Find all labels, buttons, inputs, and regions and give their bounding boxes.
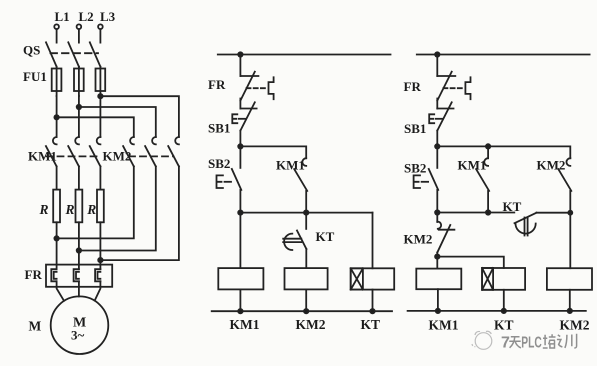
fuse FU1 element 1 (52, 67, 62, 96)
coil KM2 (middle) (285, 268, 328, 289)
wire phase1 FR to motor (57, 281, 64, 301)
svg-text:KM2: KM2 (404, 232, 433, 247)
wire phase2 fuse to KM1 contact (78, 96, 80, 137)
wire node A to KM1 branch (middle) (240, 146, 306, 158)
svg-text:R: R (86, 202, 96, 217)
node C junction (right) (435, 254, 439, 258)
junction KM2 coil rail (right) (568, 309, 572, 313)
svg-text:FR: FR (404, 79, 422, 94)
fuse FU1 element 3 (96, 67, 106, 96)
thermal relay FR heater element 3 (95, 269, 100, 281)
wire KM1 coil to bottom rail (right) (437, 289, 439, 311)
KM1 contacts linkage dashed line (47, 155, 100, 157)
wire phase2 resistor to FR (78, 222, 80, 269)
pushbutton SB1 NC (right) (404, 99, 454, 147)
wire phase3 KM1 contact to resistor R3 (99, 166, 101, 189)
junction rail to FR (right) (435, 52, 439, 56)
pushbutton SB2 NO (middle) (208, 146, 241, 212)
svg-text:3~: 3~ (71, 328, 85, 343)
resistor R3 (86, 190, 104, 223)
junction phase1 KM2 return (54, 236, 58, 240)
contactor KM1 main contact pole 2 (68, 137, 79, 166)
switch QS linkage dashed line (51, 52, 99, 54)
contactor KM2 main contact pole 2 (145, 137, 156, 166)
wire phase1 resistor to FR (56, 222, 58, 269)
svg-text:KM2: KM2 (296, 317, 326, 332)
junction rail to FR (middle) (238, 52, 242, 56)
wire KM2 coil to bottom rail (middle) (305, 289, 307, 311)
coil KT with X mark (middle) (351, 268, 395, 289)
wire phase1 to KM2 pole1 top (57, 117, 134, 137)
contactor KM1 self-lock NO contact (middle) (276, 158, 307, 213)
svg-text:KM1: KM1 (458, 158, 487, 173)
resistor R2 (65, 190, 83, 223)
thermal relay FR heater element 1 (51, 269, 56, 281)
junction SB2 bottom (middle) (238, 210, 242, 214)
wire KM2 pole1 bottom return (57, 166, 134, 238)
switch QS pole 1 blade (46, 42, 57, 66)
wire L2 drop to QS (78, 29, 80, 42)
junction SB2 bottom node B (right) (435, 210, 439, 214)
wire KM2 branch to KM2 coil (right) (569, 213, 571, 269)
wire bus corner to KT coil (middle) (372, 213, 374, 269)
wire KM2 pole3 bottom return (100, 166, 178, 260)
svg-text:R: R (65, 202, 75, 217)
wire KM2 coil to bottom rail (right) (569, 290, 571, 311)
wire KM1 coil to bottom rail (middle) (239, 289, 241, 311)
thermal relay FR NC contact (right) (404, 55, 471, 101)
wire L3 drop to QS (99, 29, 101, 42)
wire bus to KM1 coil (middle) (239, 213, 241, 269)
svg-text:PLC: PLC (521, 335, 542, 352)
svg-text:SB2: SB2 (404, 161, 426, 176)
svg-text:SB1: SB1 (208, 121, 230, 136)
svg-text:KM1: KM1 (429, 318, 459, 333)
wire phase2 KM1 contact to resistor R2 (78, 166, 80, 189)
watermark logo circle (472, 331, 492, 349)
svg-text:SB2: SB2 (208, 156, 230, 171)
wire phase1 KM1 contact to resistor R1 (56, 166, 58, 189)
junction phase2 to KM2 branch (77, 105, 81, 109)
coil KM1 (right) (416, 269, 461, 290)
junction KT coil rail (right) (502, 309, 506, 313)
contactor KM1 main contact pole 3 (90, 137, 101, 166)
resistor R1 (39, 190, 61, 223)
contactor KM2 main contact pole 1 (123, 137, 134, 166)
node A junction (middle) (238, 144, 242, 148)
node A junction (right) (435, 144, 439, 148)
wire bottom rail (middle) (212, 310, 392, 312)
svg-text:KM1: KM1 (230, 317, 260, 332)
junction KM1 coil rail (right) (436, 309, 440, 313)
wire phase2 FR to motor (78, 281, 80, 296)
svg-text:L3: L3 (100, 9, 116, 24)
junction node A to KM1 branch (right) (486, 144, 490, 148)
svg-text:KT: KT (494, 318, 514, 333)
wire phase1 fuse to KM1 contact (56, 96, 58, 137)
wire phase3 FR to motor (95, 281, 101, 300)
junction phase1 to KM2 branch (54, 115, 58, 119)
coil KT with X mark (right) (482, 268, 525, 290)
pushbutton SB2 NO (right) (404, 146, 438, 212)
wire node C to KT coil (right) (437, 257, 504, 268)
wire L1 drop to QS (56, 29, 58, 42)
node L1 terminal (54, 9, 69, 29)
wire top supply rail (right) (417, 54, 590, 56)
wire node A to KM2 branch (right) (437, 146, 570, 158)
junction KM1 coil rail (middle) (238, 309, 242, 313)
wire bottom rail (right) (408, 310, 586, 312)
switch QS pole 2 blade (68, 42, 79, 66)
contactor KM2 self-lock NO contact (right) (537, 158, 572, 213)
wire phase3 fuse to KM1 contact (99, 96, 101, 137)
svg-text:KT: KT (316, 229, 335, 244)
svg-text:FR: FR (25, 267, 43, 282)
contactor KM1 main contact pole 1 (46, 137, 57, 166)
svg-text:KM2: KM2 (537, 158, 566, 173)
contactor KM2 main contact pole 3 (168, 137, 179, 166)
time relay KT delayed NO contact (middle) (283, 213, 334, 269)
svg-text:7: 7 (501, 335, 510, 352)
junction KM2 coil rail (middle) (304, 309, 308, 313)
time relay KT delayed NO contact horizontal (right) (503, 199, 571, 236)
node L2 terminal (77, 9, 94, 29)
wire KT coil to bottom rail (middle) (372, 290, 374, 312)
junction KT coil rail (middle) (370, 309, 374, 313)
svg-text:L1: L1 (55, 9, 70, 24)
coil KM2 (right) (547, 268, 592, 290)
wire phase3 to KM2 pole3 top (100, 96, 178, 137)
watermark text 7天PLC培训 (501, 334, 577, 352)
switch QS pole 3 blade (90, 42, 101, 66)
pushbutton SB1 NC (middle) (208, 99, 257, 147)
junction KM1 contact bottom (right) (486, 210, 490, 214)
contactor KM1 self-lock NO contact (right) (458, 146, 490, 212)
KM2 contacts linkage dashed line (129, 155, 174, 157)
junction phase3 to KM2 branch (98, 94, 102, 98)
svg-text:KT: KT (503, 199, 522, 214)
thermal relay FR heater element 2 (74, 269, 79, 281)
fuse FU1 element 2 (74, 67, 84, 96)
junction KT contact KM2 coil (right) (568, 211, 572, 215)
svg-text:KM1: KM1 (276, 158, 305, 173)
junction phase3 KM2 return (98, 258, 102, 262)
wire KM2 pole2 bottom return (79, 166, 156, 250)
wire KT coil to bottom rail (right) (503, 290, 505, 311)
svg-text:SB1: SB1 (404, 121, 426, 136)
wire phase3 resistor to FR (99, 222, 101, 269)
motor M circle (51, 296, 109, 354)
contactor KM2 NC interlock contact (right) (404, 213, 455, 257)
wire phase2 to KM2 pole2 top (79, 107, 156, 137)
svg-text:FR: FR (208, 77, 226, 92)
svg-text:QS: QS (23, 43, 40, 58)
wire lower bus (middle) (240, 212, 372, 214)
coil KM1 (middle) (218, 268, 263, 289)
svg-text:L2: L2 (79, 9, 94, 24)
junction phase2 KM2 return (77, 248, 81, 252)
svg-text:KM2: KM2 (103, 149, 132, 164)
node L3 terminal (98, 9, 116, 29)
thermal relay FR box (46, 265, 112, 287)
wire node C to KM1 coil (right) (436, 257, 438, 269)
svg-text:FU1: FU1 (23, 69, 47, 84)
junction KM1 contact bottom (middle) (304, 210, 308, 214)
svg-text:R: R (39, 202, 49, 217)
svg-text:KT: KT (361, 317, 381, 332)
svg-text:M: M (29, 319, 42, 334)
wire top supply rail (middle) (218, 54, 391, 56)
thermal relay FR NC contact (middle) (208, 55, 274, 101)
wire lower bus node B (right) (437, 212, 514, 214)
svg-text:KM2: KM2 (560, 318, 590, 333)
